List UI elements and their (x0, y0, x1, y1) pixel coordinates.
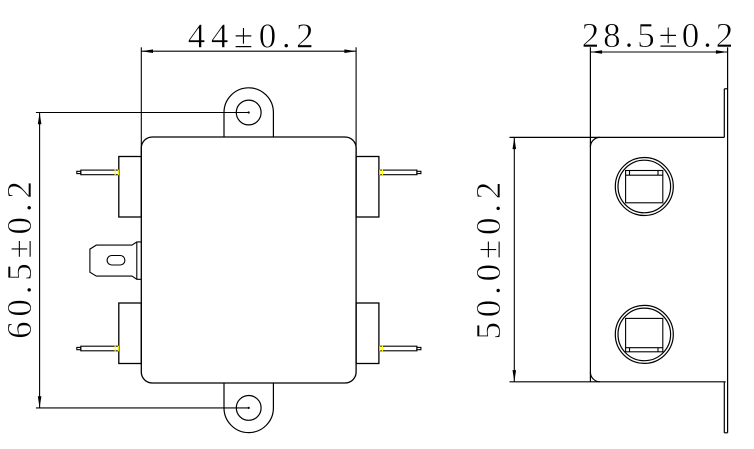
arrow bottom of 50.0 dim (513, 370, 517, 382)
extension line right (355, 47, 357, 155)
terminal bushing bottom outer circle (615, 305, 673, 363)
mounting hole bottom (236, 396, 261, 421)
arrow right of 28.5 dim (716, 50, 728, 54)
svg-text:44±0.2: 44±0.2 (188, 17, 320, 56)
mounting plate right edge / 28.5 right extension (727, 47, 729, 433)
solder mark top-right (380, 170, 383, 176)
terminal block bottom-left (119, 303, 142, 364)
arrow top of 50.0 dim (513, 137, 517, 149)
hole center mark top (248, 111, 250, 113)
terminal block bottom-right (356, 303, 379, 364)
terminal block top-right (356, 157, 379, 218)
hole center mark bottom (248, 407, 250, 409)
top-left fillet (590, 137, 600, 147)
dimension line (590, 51, 727, 53)
mounting tab top (224, 88, 273, 137)
ground faston tab (90, 242, 141, 279)
pin top-left (77, 170, 119, 175)
svg-text:60.5±0.2: 60.5±0.2 (0, 176, 39, 339)
dimension 44±0.2 (141, 47, 356, 155)
mounting hole top (236, 100, 261, 125)
pin bottom-left (77, 346, 119, 351)
svg-text:50.0±0.2: 50.0±0.2 (469, 177, 508, 340)
terminal block top-left (119, 157, 142, 218)
extension line left (140, 47, 142, 155)
solder mark bottom-left (115, 346, 118, 352)
terminal bushing top outer circle (615, 158, 673, 216)
terminal bushing bottom inner circle (618, 308, 671, 361)
extension line bottom (to hole center) (36, 407, 250, 409)
svg-text:28.5±0.2: 28.5±0.2 (582, 16, 737, 55)
pin top-right (379, 170, 421, 175)
body bottom edge / 50.0 bottom extension (510, 381, 726, 383)
dimension 28.5±0.2 (590, 51, 727, 53)
side view body (510, 47, 728, 433)
ground tab slot (107, 256, 125, 266)
arrow left of 44 dim (141, 49, 153, 53)
body left edge / 28.5 left extension (589, 47, 591, 382)
arrow top of 60.5 dim (38, 113, 42, 125)
mounting plate inner edge top (723, 89, 725, 138)
solder mark bottom-right (380, 346, 383, 352)
dimension line (141, 50, 356, 52)
extension line top (to hole center) (36, 112, 250, 114)
bottom-left fillet (590, 372, 600, 382)
arrow left of 28.5 dim (590, 50, 602, 54)
solder mark top-left (115, 170, 118, 176)
pin bottom-right (379, 346, 421, 351)
dimension 60.5±0.2 (36, 113, 250, 408)
mounting tab bottom (224, 383, 273, 433)
terminal insert top (626, 171, 663, 203)
terminal insert bottom (626, 318, 663, 351)
body top edge / 50.0 top extension (510, 136, 725, 138)
mounting plate top cap (724, 88, 727, 90)
arrow bottom of 60.5 dim (38, 396, 42, 408)
mounting plate bottom cap (724, 432, 727, 434)
arrow right of 44 dim (344, 49, 356, 53)
filter body front view (141, 137, 356, 383)
dimension line (513, 137, 515, 381)
dimension line (39, 113, 41, 408)
terminal bushing top inner circle (618, 160, 671, 213)
mounting plate inner edge bottom (723, 382, 725, 433)
dimension 50.0±0.2 (513, 137, 515, 381)
